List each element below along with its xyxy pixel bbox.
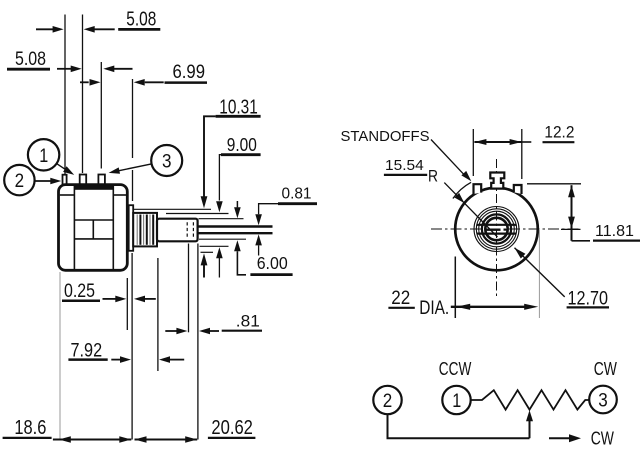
shaft bbox=[157, 219, 198, 242]
svg-text:12.2: 12.2 bbox=[544, 123, 574, 142]
extension line D (bushing face) bbox=[132, 79, 134, 158]
schematic balloon 1 bbox=[442, 386, 470, 414]
leader 12.70 to ring bbox=[515, 248, 565, 297]
dimension 5.08 top (A-B) bbox=[36, 28, 53, 30]
svg-text:1: 1 bbox=[452, 391, 461, 412]
resistor element bbox=[471, 390, 590, 409]
dimension .81 arrows bbox=[165, 330, 176, 332]
balloon 2 bbox=[4, 165, 34, 195]
left tab bottom line bbox=[60, 194, 75, 196]
svg-text:6.00: 6.00 bbox=[257, 253, 288, 273]
extension line B (pin 1 center) bbox=[82, 15, 84, 174]
extension line body left (18.6) bbox=[59, 272, 61, 440]
body inner box bottom line bbox=[74, 238, 113, 240]
svg-text:R: R bbox=[428, 167, 438, 186]
pot body outline bbox=[59, 185, 128, 271]
extension line slot depth (.81) bbox=[188, 244, 190, 333]
dimension 0.25 arrows bbox=[103, 298, 116, 300]
extension line shaft end (20.62) bbox=[197, 244, 199, 440]
dimension 6.00 shaft dia arrows bbox=[236, 201, 238, 207]
svg-text:12.70: 12.70 bbox=[568, 289, 609, 310]
extension line bushing end (7.92) bbox=[157, 258, 159, 371]
dimension 9.00 lower arrow bbox=[216, 247, 223, 258]
leader STANDOFFS to left tab bbox=[431, 140, 466, 177]
front view horizontal centerline bbox=[431, 228, 581, 230]
dimension 11.81 vertical arrows bbox=[571, 185, 573, 241]
svg-text:0.25: 0.25 bbox=[64, 281, 95, 302]
svg-text:3: 3 bbox=[162, 152, 172, 173]
pin 3 terminal bbox=[98, 175, 105, 188]
thin ring 1 bbox=[479, 211, 515, 247]
svg-text:STANDOFFS: STANDOFFS bbox=[341, 129, 430, 145]
wire balloon 2 to wiper bbox=[388, 414, 530, 438]
svg-text:1: 1 bbox=[39, 146, 48, 167]
bottom dimension line 18.6 span bbox=[53, 438, 131, 440]
svg-text:11.81: 11.81 bbox=[595, 223, 634, 240]
svg-text:5.08: 5.08 bbox=[126, 9, 156, 31]
body inner vertical right bbox=[112, 186, 114, 269]
dimension 12.2 arrows bbox=[474, 141, 521, 143]
svg-text:CW: CW bbox=[591, 428, 615, 449]
extension line circle left (22 DIA) bbox=[454, 257, 456, 319]
svg-text:15.54: 15.54 bbox=[385, 158, 424, 174]
bottom dimension line 20.62 span bbox=[135, 438, 198, 440]
body thick top bar bbox=[74, 185, 113, 189]
front left standoff tab bbox=[474, 184, 482, 194]
shaft slot hidden line 1 bbox=[186, 222, 188, 238]
slot center mark bbox=[487, 228, 501, 230]
right tab bottom line bbox=[113, 194, 126, 196]
extension line left standoff bbox=[472, 129, 474, 176]
svg-text:3: 3 bbox=[598, 391, 608, 412]
svg-text:.81: .81 bbox=[236, 312, 260, 331]
slot chord top bbox=[477, 224, 516, 226]
reference line L6 shaft bottom ext bbox=[199, 238, 246, 240]
balloon 1 bbox=[28, 139, 59, 170]
reference line L2 (9.00 upper) bbox=[166, 213, 229, 215]
svg-text:2: 2 bbox=[15, 171, 25, 192]
extension line C (pin 3 center) bbox=[100, 62, 102, 169]
reference line L1 (10.31 upper) bbox=[134, 208, 211, 210]
shaft circle (thick) bbox=[485, 218, 507, 240]
svg-text:20.62: 20.62 bbox=[211, 417, 253, 439]
extension line body right face (0.25) bbox=[126, 278, 128, 330]
svg-text:0.81: 0.81 bbox=[282, 186, 312, 203]
reference line L5 slot bottom ext bbox=[196, 232, 273, 234]
bushing ring (thick) bbox=[482, 214, 511, 243]
pot front body circle bbox=[455, 188, 538, 271]
dimension 10.31 lower arrow bbox=[201, 253, 208, 265]
dimension 6.99 (C-D) bbox=[80, 81, 89, 83]
leader from balloon 3 to pin 3 bbox=[119, 164, 151, 171]
dimension 0.81 lower arrow bbox=[255, 234, 262, 245]
body inner box divider bbox=[92, 220, 94, 239]
svg-text:5.08: 5.08 bbox=[15, 49, 46, 70]
shaft slot hidden line 2 bbox=[192, 222, 194, 238]
dimension 12.2 text bbox=[543, 141, 575, 143]
thin ring 3 bbox=[474, 207, 519, 252]
front center standoff (I-beam) bbox=[490, 173, 504, 189]
pin 2 terminal bbox=[63, 175, 67, 185]
svg-text:CCW: CCW bbox=[439, 358, 472, 379]
radius arc for 15.54 R bbox=[453, 182, 471, 198]
slot chord bottom bbox=[477, 233, 516, 235]
centerline tick for 11.81 bbox=[561, 228, 581, 230]
leader 15.54 R into circle bbox=[444, 183, 497, 237]
pin 1 terminal bbox=[80, 175, 87, 188]
body inner vertical left bbox=[73, 186, 75, 269]
svg-text:9.00: 9.00 bbox=[227, 135, 257, 155]
balloon 3 bbox=[151, 145, 182, 176]
dimension .81 text bbox=[222, 330, 262, 332]
schematic balloon 2 bbox=[373, 386, 401, 414]
extension line A (pin 2 center) bbox=[64, 15, 66, 175]
dimension 12.70 text bbox=[567, 306, 609, 308]
reference line L4 slot top ext bbox=[196, 225, 273, 227]
threaded bushing bbox=[133, 213, 157, 247]
extension line right standoff bbox=[521, 129, 523, 179]
leader from balloon 2 to pin 2 bbox=[35, 180, 51, 182]
bushing thread lines bbox=[136, 215, 138, 245]
body inner box top line bbox=[74, 219, 113, 221]
svg-text:18.6: 18.6 bbox=[14, 417, 46, 439]
leader from balloon 1 to pin 1 bbox=[57, 164, 67, 171]
dimension 22 DIA arrows bbox=[451, 306, 526, 308]
svg-text:CW: CW bbox=[594, 358, 618, 379]
CW rotation arrow bbox=[549, 437, 570, 439]
svg-text:22: 22 bbox=[391, 288, 410, 309]
svg-text:DIA.: DIA. bbox=[419, 298, 449, 319]
reference line L8 (10.31 lower) bbox=[201, 251, 214, 253]
reference line L7 (9.00 lower) bbox=[200, 245, 229, 247]
extension line washer face (long) bbox=[131, 253, 133, 440]
dimension 20.62 text bbox=[208, 437, 256, 439]
washer bbox=[129, 205, 134, 251]
extension line circle right (22 DIA) bbox=[538, 230, 540, 318]
thin ring 2 bbox=[476, 209, 516, 249]
reference line standoff top (11.81) bbox=[527, 183, 581, 185]
svg-text:2: 2 bbox=[383, 391, 393, 412]
front right standoff tab bbox=[514, 185, 522, 194]
leader L to 11.81 text bbox=[572, 240, 591, 242]
dimension 7.92 arrows bbox=[111, 359, 120, 361]
reference line L3 shaft top ext bbox=[199, 218, 244, 220]
svg-text:6.99: 6.99 bbox=[173, 62, 206, 83]
wiper arrow bbox=[529, 414, 531, 439]
front view vertical centerline bbox=[496, 159, 498, 298]
schematic balloon 3 bbox=[589, 386, 617, 414]
